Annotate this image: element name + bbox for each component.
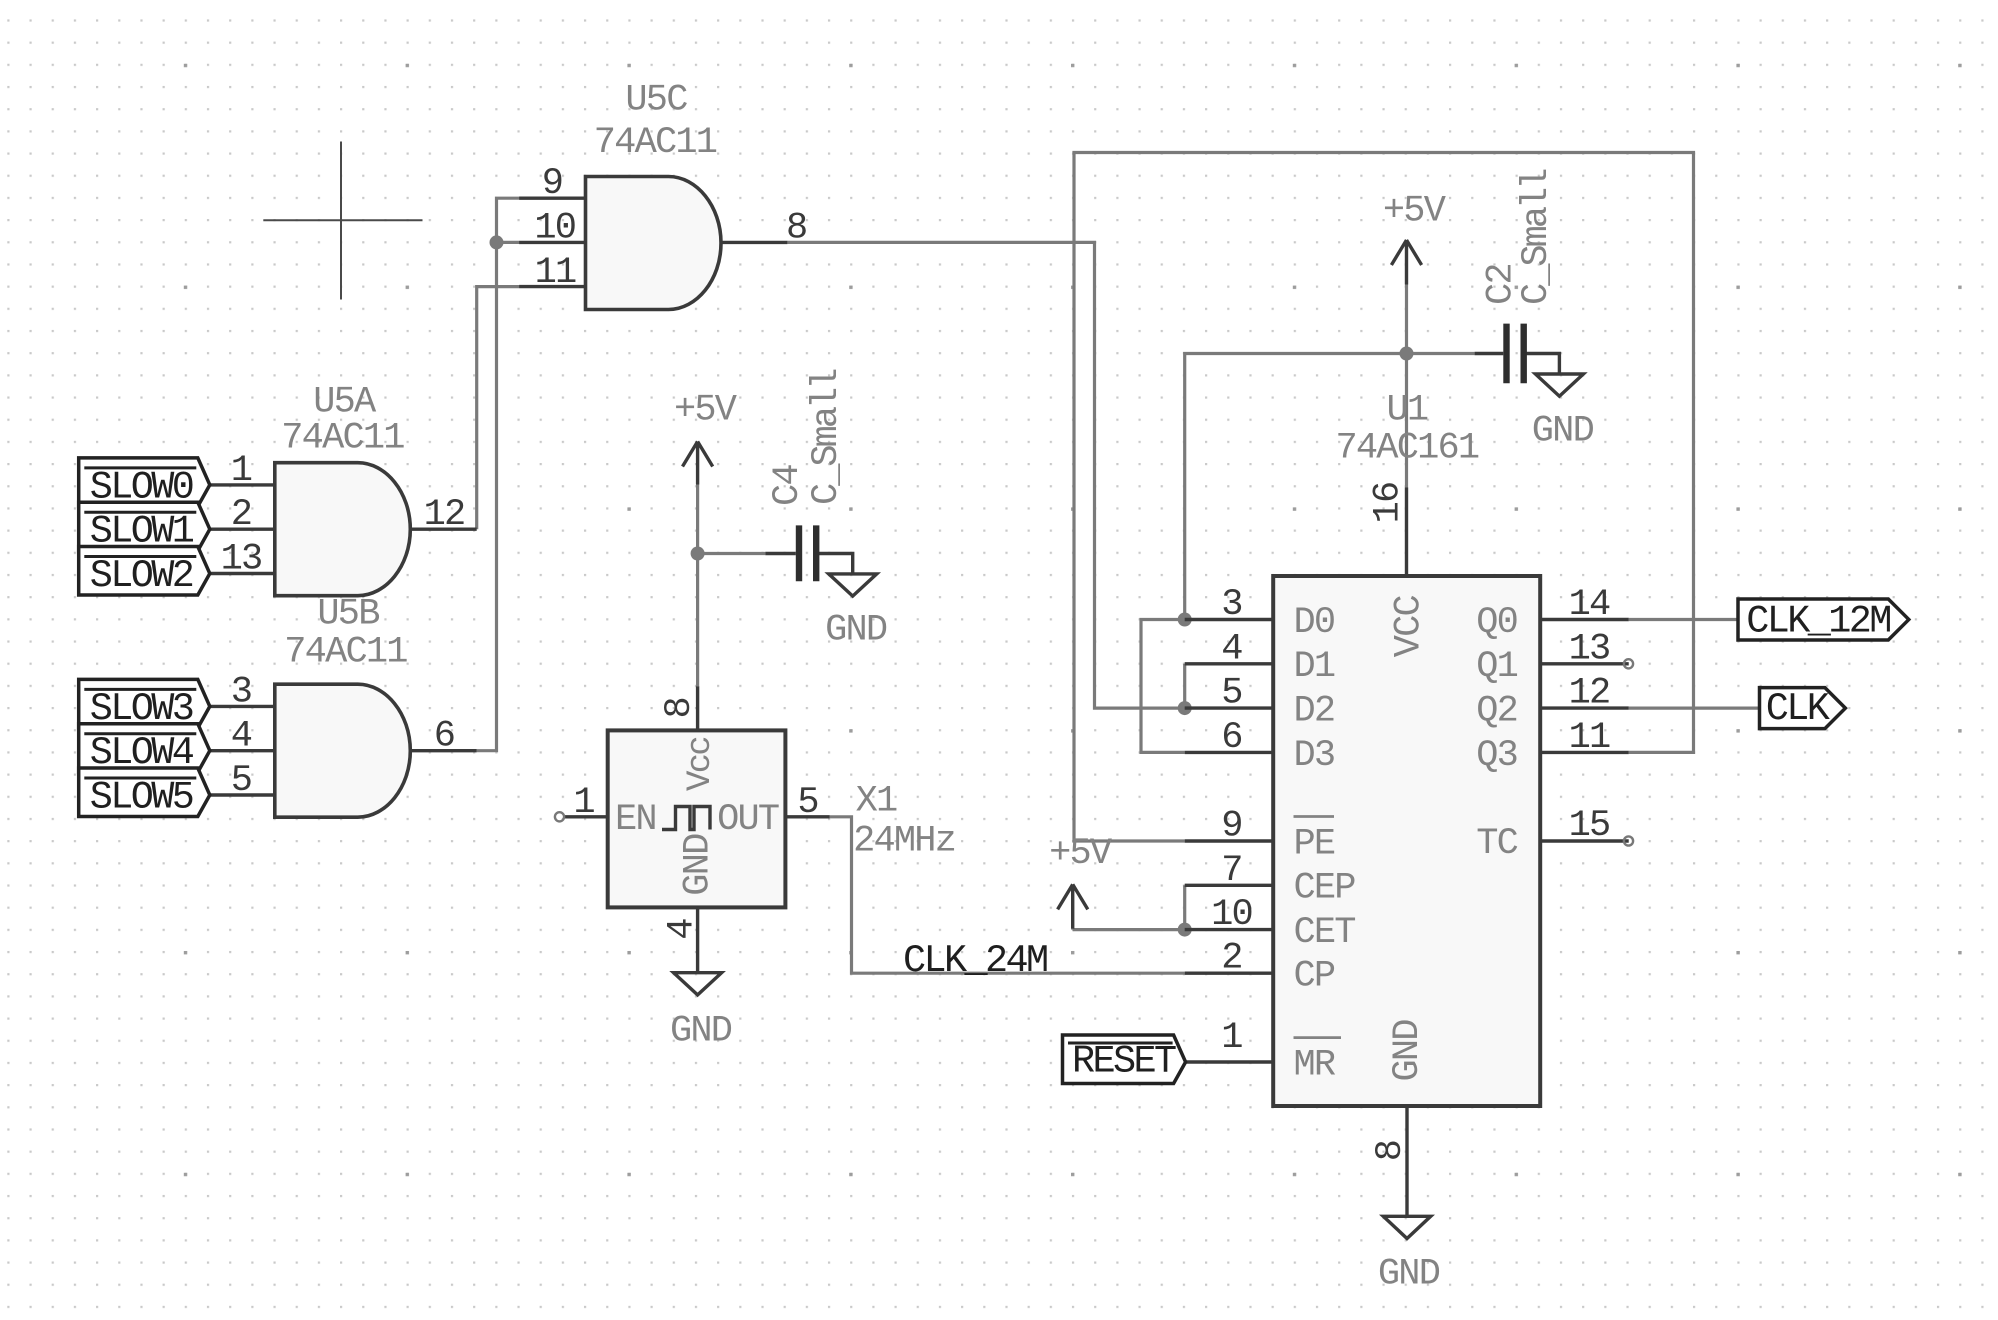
svg-text:CLK_12M: CLK_12M <box>1746 600 1890 644</box>
global label SLOW4 <box>79 724 210 775</box>
power GND at C2 <box>1523 354 1583 397</box>
svg-text:11: 11 <box>535 252 576 294</box>
svg-text:4: 4 <box>662 919 704 940</box>
junction U1 VCC <box>1400 347 1414 361</box>
U1 GND pin name <box>1387 1020 1429 1082</box>
U5B reference <box>317 594 379 636</box>
global label SLOW3 <box>79 679 210 730</box>
net label CLK_24M <box>903 939 1047 983</box>
U1 VCC pin number 16 <box>1368 483 1410 524</box>
X1 pin numbers <box>573 698 817 940</box>
svg-text:SLOW2: SLOW2 <box>90 554 193 598</box>
svg-text:CLK_24M: CLK_24M <box>903 939 1047 983</box>
junction U1 D0 <box>1178 613 1192 627</box>
svg-text:Q1: Q1 <box>1476 646 1517 688</box>
svg-text:8: 8 <box>1370 1141 1412 1161</box>
GND label at C4 <box>825 609 887 651</box>
U1 reference <box>1386 390 1427 432</box>
svg-text:C_Small: C_Small <box>806 369 848 505</box>
svg-text:Vcc: Vcc <box>682 738 720 791</box>
power GND below X1 <box>674 907 722 995</box>
svg-text:16: 16 <box>1368 483 1410 524</box>
C4 reference <box>767 465 809 506</box>
svg-text:TC: TC <box>1476 823 1517 865</box>
+5V label above U1 <box>1383 191 1446 233</box>
U1 right pin names <box>1476 602 1517 865</box>
U5A pins <box>208 485 476 574</box>
svg-text:VCC: VCC <box>1388 595 1430 657</box>
svg-text:4: 4 <box>1221 628 1242 670</box>
U1 VCC pin name <box>1388 595 1430 657</box>
svg-text:U1: U1 <box>1386 390 1427 432</box>
svg-text:74AC11: 74AC11 <box>594 122 717 164</box>
wire U1 D1 to D2 <box>1183 664 1186 708</box>
svg-text:D0: D0 <box>1294 602 1335 644</box>
no-connect circle Q1 <box>1624 659 1633 668</box>
svg-text:7: 7 <box>1221 850 1241 892</box>
wire U5A out to U5C pin 11 <box>477 287 519 530</box>
wire +5V to CET <box>1073 927 1185 931</box>
svg-text:CP: CP <box>1294 956 1335 998</box>
C4 value <box>806 369 848 505</box>
sheet origin cross marker <box>263 142 422 300</box>
svg-text:Q0: Q0 <box>1476 602 1517 644</box>
X1 reference <box>856 781 897 823</box>
svg-text:C4: C4 <box>767 465 809 506</box>
svg-text:GND: GND <box>670 1011 732 1053</box>
svg-text:9: 9 <box>542 163 562 205</box>
svg-text:24MHz: 24MHz <box>853 821 955 863</box>
svg-text:MR: MR <box>1294 1044 1336 1086</box>
global label SLOW1 <box>79 502 210 553</box>
X1 waveform glyph <box>662 807 710 830</box>
U5C pins <box>519 198 787 286</box>
wire +5V stem to X1 Vcc pin <box>696 485 699 687</box>
U5A value <box>281 418 404 460</box>
PE overbar <box>1294 815 1335 818</box>
wire D0 to D3 tie <box>1141 620 1185 753</box>
svg-text:C_Small: C_Small <box>1516 169 1558 305</box>
counter U1 74AC161 body <box>1273 576 1540 1106</box>
svg-text:GND: GND <box>825 609 887 651</box>
and-gate U5B body <box>275 684 411 817</box>
svg-text:5: 5 <box>797 782 817 824</box>
junction X1 Vcc <box>691 547 705 561</box>
svg-text:1: 1 <box>1221 1017 1242 1059</box>
wire U5C pin 8 to U1 D2 <box>787 242 1184 708</box>
wire Q0 to CLK_12M flag <box>1629 618 1738 621</box>
svg-text:2: 2 <box>231 494 251 536</box>
U5C reference <box>625 80 687 122</box>
GND label below U1 <box>1378 1254 1440 1296</box>
svg-text:CET: CET <box>1294 912 1356 954</box>
svg-text:PE: PE <box>1294 823 1335 865</box>
svg-text:D2: D2 <box>1294 691 1335 733</box>
svg-text:RESET: RESET <box>1072 1040 1176 1084</box>
svg-text:8: 8 <box>659 698 701 718</box>
svg-text:U5B: U5B <box>317 594 379 636</box>
U5B pin numbers <box>231 671 454 802</box>
svg-text:2: 2 <box>1221 938 1241 980</box>
power +5V above U1 <box>1391 240 1421 285</box>
svg-text:11: 11 <box>1569 717 1610 759</box>
wire +5V rail to D0 <box>1185 354 1407 620</box>
svg-text:12: 12 <box>1569 673 1610 715</box>
U1 GND pin number 8 <box>1370 1141 1412 1161</box>
global label RESET <box>1063 1035 1186 1084</box>
U1 right pins <box>1540 620 1629 842</box>
svg-text:CEP: CEP <box>1294 868 1356 910</box>
wire X1 Vcc junction to C4 <box>698 552 766 555</box>
junction U5C pin 10 <box>490 235 504 249</box>
MR overbar <box>1294 1036 1342 1039</box>
C2 reference <box>1481 264 1523 305</box>
oscillator X1 body <box>608 730 786 907</box>
and-gate U5C body <box>586 177 722 310</box>
svg-text:SLOW5: SLOW5 <box>90 775 193 819</box>
svg-text:5: 5 <box>1221 673 1241 715</box>
svg-text:13: 13 <box>1569 628 1610 670</box>
svg-text:8: 8 <box>786 207 806 249</box>
svg-text:+5V: +5V <box>1049 833 1112 875</box>
power GND at C4 <box>816 554 877 597</box>
svg-text:5: 5 <box>231 760 251 802</box>
U1 left pins <box>1185 620 1274 1063</box>
wire Q3 to PE feedback loop <box>1074 153 1694 842</box>
svg-text:3: 3 <box>231 671 251 713</box>
svg-text:+5V: +5V <box>1383 191 1446 233</box>
svg-text:GND: GND <box>1387 1020 1429 1082</box>
junction U1 CET <box>1178 923 1192 937</box>
U5B pins <box>208 706 476 795</box>
svg-text:GND: GND <box>678 834 720 896</box>
svg-text:+5V: +5V <box>674 389 737 431</box>
wire U5B out to U5C pins 9/10 <box>477 198 519 751</box>
U1 left pin numbers <box>1211 584 1252 1059</box>
power GND below U1 <box>1383 1106 1430 1239</box>
X1 pins <box>563 686 829 817</box>
X1 value 24MHz <box>853 821 955 863</box>
svg-text:1: 1 <box>573 782 594 824</box>
global label CLK <box>1760 687 1846 731</box>
no-connect circle X1 pin 1 <box>555 812 564 821</box>
capacitor C4 <box>765 525 816 581</box>
U5A reference <box>313 382 377 424</box>
svg-text:GND: GND <box>1378 1254 1440 1296</box>
svg-text:1: 1 <box>231 450 252 492</box>
svg-text:GND: GND <box>1532 411 1594 453</box>
power +5V at CET <box>1058 884 1088 928</box>
global label SLOW0 <box>79 458 210 509</box>
C2 value <box>1516 169 1558 305</box>
svg-text:Q2: Q2 <box>1476 691 1517 733</box>
junction U1 D2 <box>1178 701 1192 715</box>
global label SLOW2 <box>79 547 210 598</box>
wire X1 OUT to U1 CP (CLK_24M) <box>830 817 1185 973</box>
GND label below X1 <box>670 1011 732 1053</box>
global label CLK_12M <box>1738 599 1909 644</box>
U5C pin numbers <box>534 163 806 294</box>
svg-text:9: 9 <box>1221 806 1241 848</box>
svg-text:D3: D3 <box>1294 735 1335 777</box>
svg-text:6: 6 <box>1221 717 1241 759</box>
svg-text:12: 12 <box>424 494 465 536</box>
GND label at C2 <box>1532 411 1594 453</box>
U5A pin numbers <box>221 450 465 581</box>
svg-text:3: 3 <box>1221 584 1241 626</box>
svg-text:D1: D1 <box>1294 646 1335 688</box>
svg-text:74AC11: 74AC11 <box>284 632 407 674</box>
svg-text:OUT: OUT <box>717 799 779 841</box>
U5B value <box>284 632 407 674</box>
wire +5V stem to U1 VCC pin <box>1405 285 1408 488</box>
U5C value <box>594 122 717 164</box>
svg-text:X1: X1 <box>856 781 897 823</box>
U1 value <box>1335 428 1478 470</box>
svg-text:13: 13 <box>221 539 262 581</box>
and-gate U5A body <box>275 463 411 596</box>
svg-text:10: 10 <box>534 208 575 250</box>
U1 right pin numbers <box>1569 584 1610 847</box>
global label SLOW5 <box>79 768 210 819</box>
svg-text:EN: EN <box>615 799 656 841</box>
svg-text:74AC161: 74AC161 <box>1335 428 1478 470</box>
svg-text:15: 15 <box>1569 805 1610 847</box>
svg-text:74AC11: 74AC11 <box>281 418 404 460</box>
wire CEP to CET junction <box>1183 885 1186 929</box>
svg-text:14: 14 <box>1569 584 1610 626</box>
wire VCC junction to C2 <box>1407 352 1475 355</box>
U1 VCC pin <box>1405 488 1408 577</box>
+5V label at CET <box>1049 833 1112 875</box>
X1 pin names <box>615 738 779 896</box>
svg-text:10: 10 <box>1211 894 1252 936</box>
svg-text:U5C: U5C <box>625 80 687 122</box>
svg-text:Q3: Q3 <box>1476 735 1517 777</box>
U1 left pin names <box>1294 602 1356 1087</box>
svg-text:CLK: CLK <box>1766 687 1831 731</box>
svg-text:4: 4 <box>231 716 252 758</box>
svg-text:6: 6 <box>434 716 454 758</box>
power +5V above X1 <box>683 442 713 485</box>
wire Q2 to CLK flag <box>1629 706 1760 709</box>
capacitor C2 <box>1475 324 1524 384</box>
no-connect circle TC <box>1624 836 1633 845</box>
+5V label above X1 <box>674 389 737 431</box>
